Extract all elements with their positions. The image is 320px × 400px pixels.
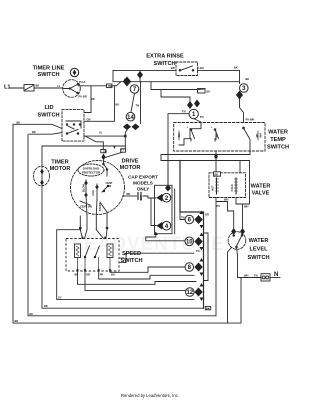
svg-text:LEVEL: LEVEL <box>249 246 268 252</box>
svg-text:BK: BK <box>246 77 250 81</box>
svg-text:SWITCH: SWITCH <box>247 255 269 261</box>
svg-text:EXTRA RINSE: EXTRA RINSE <box>146 54 184 60</box>
svg-text:SWITCH: SWITCH <box>120 258 142 264</box>
svg-text:14: 14 <box>127 115 134 121</box>
svg-text:WH: WH <box>244 273 248 277</box>
svg-text:PK: PK <box>100 273 104 277</box>
svg-text:CENT SW: CENT SW <box>80 205 93 209</box>
svg-text:GY: GY <box>120 147 124 151</box>
svg-text:CAP EXPORT: CAP EXPORT <box>128 175 158 180</box>
svg-text:BK: BK <box>171 66 175 70</box>
svg-text:BK: BK <box>32 130 36 134</box>
svg-text:SWITCH: SWITCH <box>267 145 289 151</box>
svg-text:RD: RD <box>127 192 131 196</box>
svg-text:TN: TN <box>182 110 186 114</box>
svg-text:BU: BU <box>111 273 115 277</box>
svg-text:TN: TN <box>254 273 258 277</box>
svg-text:GY: GY <box>58 296 62 300</box>
svg-text:TIMER: TIMER <box>51 160 68 166</box>
svg-text:BK: BK <box>17 120 21 124</box>
svg-text:BU: BU <box>207 90 211 94</box>
svg-text:TN: TN <box>196 249 200 253</box>
svg-text:TEMP: TEMP <box>270 137 286 143</box>
svg-text:GN: GN <box>87 117 91 121</box>
svg-text:WATER: WATER <box>251 184 271 190</box>
svg-text:RD: RD <box>255 134 259 138</box>
svg-text:PU: PU <box>217 204 221 208</box>
svg-text:BK: BK <box>75 273 79 277</box>
svg-text:COLD: COLD <box>230 184 234 191</box>
svg-text:AUX: AUX <box>91 190 95 196</box>
svg-text:PU-A: PU-A <box>79 80 85 84</box>
svg-text:RD: RD <box>215 134 219 138</box>
svg-text:PU-BR: PU-BR <box>79 95 87 99</box>
svg-text:DRIVE: DRIVE <box>121 159 138 165</box>
svg-text:WH: WH <box>259 133 263 137</box>
svg-text:OR: OR <box>205 213 209 217</box>
svg-text:MOTOR: MOTOR <box>50 166 71 172</box>
svg-text:TN: TN <box>181 215 185 219</box>
svg-text:BK: BK <box>124 78 128 82</box>
svg-text:SWITCH: SWITCH <box>37 113 59 119</box>
svg-text:BK: BK <box>206 306 210 310</box>
svg-text:START: START <box>98 202 102 211</box>
svg-text:PU: PU <box>200 115 204 119</box>
svg-text:GN: GN <box>177 133 181 137</box>
svg-text:12: 12 <box>186 290 193 296</box>
svg-text:10: 10 <box>186 240 193 246</box>
svg-text:VALVE: VALVE <box>252 191 270 197</box>
svg-text:OR: OR <box>86 273 90 277</box>
svg-text:BK: BK <box>36 84 40 88</box>
svg-text:SW: SW <box>107 184 112 188</box>
svg-text:HOT: HOT <box>211 185 215 191</box>
svg-text:WATER: WATER <box>249 238 269 244</box>
svg-text:SWITCH: SWITCH <box>37 72 59 78</box>
svg-text:Rendered by LeadVenture, Inc.: Rendered by LeadVenture, Inc. <box>121 393 179 398</box>
svg-text:MOTOR: MOTOR <box>120 165 141 171</box>
svg-text:L1: L1 <box>4 85 11 91</box>
svg-text:VL: VL <box>99 131 103 135</box>
svg-text:WH: WH <box>244 205 248 209</box>
svg-text:SPEED: SPEED <box>122 251 141 257</box>
svg-text:BK: BK <box>234 66 238 70</box>
svg-text:MODELS: MODELS <box>133 181 153 186</box>
svg-text:LBU: LBU <box>199 66 204 70</box>
svg-text:BK: BK <box>215 173 219 177</box>
svg-text:WH: WH <box>224 198 228 202</box>
svg-text:N: N <box>274 272 278 278</box>
svg-text:BK: BK <box>44 304 48 308</box>
svg-text:BU: BU <box>30 312 34 316</box>
svg-text:BK: BK <box>91 97 95 101</box>
svg-text:RD: RD <box>108 84 112 88</box>
svg-text:BU: BU <box>116 103 120 107</box>
svg-text:GN: GN <box>103 149 107 153</box>
svg-text:PU-WH: PU-WH <box>246 118 255 122</box>
svg-text:PROTECTOR: PROTECTOR <box>82 171 101 175</box>
svg-text:CAP: CAP <box>139 195 143 201</box>
svg-text:WATER: WATER <box>268 130 288 136</box>
svg-text:LID: LID <box>44 105 53 111</box>
svg-text:TIMER LINE: TIMER LINE <box>33 66 65 72</box>
svg-text:TN: TN <box>136 104 140 108</box>
svg-text:BLOW: BLOW <box>82 183 86 191</box>
svg-text:ONLY: ONLY <box>137 187 149 192</box>
svg-text:BK: BK <box>15 319 19 323</box>
